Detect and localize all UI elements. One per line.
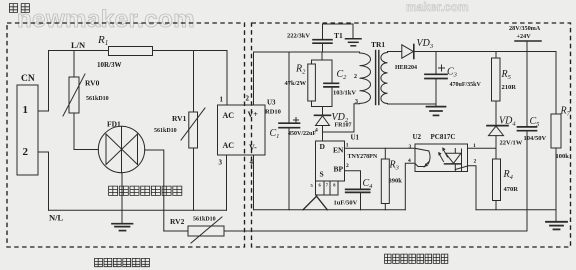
output terminal +24V — [515, 40, 541, 42]
svg-text:RV1: RV1 — [172, 114, 187, 123]
wire secondary top to VD3 — [388, 51, 402, 53]
wire R1 to bridge pin1 — [153, 51, 228, 106]
dashed border: lightning-protection box — [7, 23, 245, 247]
wire secondary bottom to C3 ground — [388, 103, 437, 105]
svg-text:AC: AC — [223, 111, 235, 120]
svg-text:1: 1 — [220, 96, 224, 104]
svg-text:FD1: FD1 — [107, 120, 121, 129]
wire RV2 to secondary ground riser — [224, 210, 527, 231]
svg-text:HER204: HER204 — [395, 65, 417, 71]
svg-text:maker.com: maker.com — [406, 0, 469, 14]
svg-text:1: 1 — [23, 104, 29, 116]
svg-text:3: 3 — [409, 144, 412, 150]
svg-text:U3: U3 — [267, 99, 276, 107]
wire opto pin2 riser — [468, 166, 476, 210]
IC U1 TNY278PN — [316, 141, 345, 181]
svg-text:CN: CN — [21, 74, 35, 84]
svg-text:1: 1 — [346, 143, 349, 149]
wire primary return rail — [254, 209, 406, 211]
varistor RV0 — [73, 51, 75, 78]
wire U1 EN to opto — [345, 147, 416, 149]
wire snubber feed — [321, 52, 323, 60]
svg-text:2: 2 — [346, 163, 349, 169]
ground (secondary, under C3) — [427, 106, 446, 108]
U2 phototransistor — [415, 148, 428, 151]
svg-text:2: 2 — [354, 74, 357, 80]
svg-text:PC817C: PC817C — [431, 133, 456, 141]
caption 开关电源电路部分 (switching power supply section) — [385, 254, 448, 263]
svg-text:2: 2 — [23, 146, 29, 158]
wire opto pin4 riser — [405, 163, 415, 210]
resistor R2 — [308, 64, 316, 101]
transformer TR1 secondary winding — [381, 53, 388, 104]
ground (under FD1) — [112, 223, 133, 225]
svg-text:210R: 210R — [502, 84, 517, 91]
svg-text:L/N: L/N — [71, 40, 86, 50]
svg-text:T1: T1 — [334, 31, 343, 40]
label 陶瓷气体放电管 (ceramic gas discharge tube) — [109, 186, 182, 195]
svg-text:S: S — [320, 170, 324, 179]
wire RV0 to FD1 — [74, 113, 99, 150]
svg-text:10R/3W: 10R/3W — [97, 61, 122, 69]
svg-text:3: 3 — [355, 99, 358, 105]
resistor R1 — [109, 47, 153, 56]
ground (output, bottom right) — [555, 210, 557, 221]
svg-text:470uF/35kV: 470uF/35kV — [450, 82, 482, 88]
svg-text:103/1kV: 103/1kV — [333, 90, 356, 97]
bridge rectifier U3 — [218, 105, 266, 155]
svg-text:28V/350mA: 28V/350mA — [509, 25, 541, 32]
capacitor C4 — [346, 188, 370, 190]
wire bridge pin2 to V+ rail — [253, 52, 255, 105]
svg-text:RD10: RD10 — [265, 109, 281, 116]
capacitor T1 (Y-cap to chassis) — [313, 39, 332, 41]
wire CN pin1 stub — [38, 51, 49, 112]
U2 light arrows — [439, 154, 444, 162]
svg-text:N/L: N/L — [49, 213, 64, 223]
svg-text:4: 4 — [315, 128, 318, 134]
wire U1 BP to C4 — [345, 171, 361, 189]
svg-text:561kD10: 561kD10 — [193, 217, 216, 223]
wire bridge pin3 to N/L — [226, 155, 228, 210]
svg-text:U1: U1 — [351, 134, 360, 142]
svg-text:22V/1W: 22V/1W — [500, 140, 523, 147]
svg-text:BP: BP — [334, 165, 344, 174]
svg-text:1: 1 — [473, 143, 476, 149]
svg-text:FR107: FR107 — [335, 123, 352, 129]
svg-text:EN: EN — [333, 146, 344, 155]
diode VD3 — [402, 45, 414, 58]
transformer TR1 core — [375, 51, 377, 105]
svg-text:D: D — [320, 142, 326, 151]
svg-text:+24V: +24V — [517, 33, 532, 40]
svg-text:4: 4 — [250, 158, 254, 166]
wire N/L rail — [49, 209, 227, 211]
ground (chassis, beside T1) — [346, 38, 362, 40]
svg-text:1uF/50V: 1uF/50V — [334, 200, 358, 207]
svg-text:AC: AC — [223, 141, 235, 150]
svg-text:4: 4 — [408, 158, 411, 164]
capacitor C2 — [331, 60, 333, 83]
svg-text:RV2: RV2 — [170, 217, 185, 226]
svg-text:3: 3 — [219, 159, 223, 167]
gas discharge tube FD1 — [98, 126, 144, 172]
wire bridge pin4 to primary return rail — [253, 155, 255, 210]
wire CN pin2 stub — [38, 152, 49, 210]
varistor RV1 — [193, 51, 195, 113]
svg-text:V+: V+ — [248, 110, 259, 119]
caption 防雷电路部分 (lightning protection section) — [95, 258, 150, 266]
wire V+ rail (bridge to primary top) — [254, 51, 360, 53]
title 附图 — [9, 4, 29, 13]
svg-text:470R: 470R — [504, 186, 519, 193]
capacitor C1 — [288, 52, 290, 123]
svg-text:U2: U2 — [413, 133, 422, 141]
svg-text:450V/22uF: 450V/22uF — [288, 131, 316, 137]
wire FD1 right to RV2 riser — [145, 150, 164, 231]
resistor R5 — [495, 52, 497, 59]
svg-text:390k: 390k — [389, 178, 403, 185]
svg-text:newmaker.com: newmaker.com — [17, 6, 195, 33]
diode VD2 — [322, 107, 324, 116]
capacitor C3 — [435, 52, 437, 75]
connector CN — [17, 85, 38, 175]
wire +24V rail — [414, 51, 556, 53]
resistor R7 — [555, 52, 557, 115]
svg-text:2: 2 — [246, 95, 250, 103]
zener diode VD4 — [487, 125, 508, 127]
transformer TR1 primary winding — [360, 53, 371, 103]
varistor RV2 — [164, 230, 188, 232]
wire opto pin1 to VD4/R4 node — [468, 147, 496, 149]
wire FD1 bottom stem — [121, 173, 123, 224]
svg-text:222/3kV: 222/3kV — [287, 33, 310, 40]
wire secondary return rail — [476, 209, 556, 211]
svg-text:104/50V: 104/50V — [524, 135, 547, 142]
svg-text:RV0: RV0 — [85, 79, 100, 88]
wire drain link (primary bottom to U1 drain) — [323, 104, 360, 132]
resistor R4 — [495, 148, 497, 159]
svg-text:2: 2 — [474, 159, 477, 165]
U1 source pin boxes (pins 5-8) — [316, 181, 325, 195]
svg-text:561kD10: 561kD10 — [86, 96, 109, 102]
optocoupler U2 PC817C — [415, 144, 468, 172]
resistor R3 — [384, 148, 386, 159]
wire L/N rail — [49, 50, 109, 52]
svg-text:561kD10: 561kD10 — [154, 128, 177, 134]
svg-text:V-: V- — [249, 143, 257, 152]
capacitor C5 — [526, 52, 528, 127]
wire U1 source fan to return rail — [303, 195, 317, 210]
svg-text:TNY278PN: TNY278PN — [348, 154, 378, 160]
svg-text:TR1: TR1 — [371, 40, 385, 49]
svg-text:100k: 100k — [556, 153, 570, 160]
dashed border: switching-power-supply box — [252, 23, 571, 247]
snubber loop (R2 parallel C2) — [312, 59, 333, 61]
svg-text:47k/2W: 47k/2W — [285, 80, 307, 87]
U2 LED — [454, 149, 456, 154]
